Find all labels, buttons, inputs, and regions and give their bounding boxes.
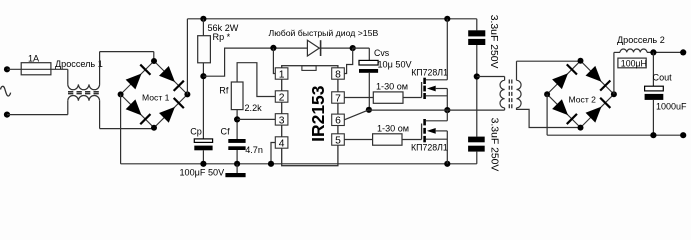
svg-text:Мост 1: Мост 1 bbox=[142, 92, 170, 102]
svg-text:Любой быстрый диод >15В: Любой быстрый диод >15В bbox=[269, 28, 379, 38]
svg-text:8: 8 bbox=[335, 69, 341, 80]
svg-text:100μH: 100μH bbox=[621, 58, 647, 68]
svg-text:1-30 ом: 1-30 ом bbox=[376, 82, 408, 92]
svg-text:КП728Л1: КП728Л1 bbox=[411, 68, 448, 78]
svg-text:КП728Л1: КП728Л1 bbox=[411, 142, 448, 152]
svg-text:Дроссель 2: Дроссель 2 bbox=[617, 35, 665, 45]
svg-text:Rp *: Rp * bbox=[213, 32, 231, 42]
svg-text:3: 3 bbox=[279, 115, 285, 126]
svg-text:7: 7 bbox=[335, 93, 341, 104]
svg-text:2: 2 bbox=[279, 92, 285, 103]
svg-text:6: 6 bbox=[335, 116, 341, 127]
svg-text:1000uF: 1000uF bbox=[656, 102, 687, 112]
svg-text:3.3uF 250V: 3.3uF 250V bbox=[488, 118, 499, 172]
svg-text:Cf: Cf bbox=[221, 127, 231, 137]
svg-text:1-30 ом: 1-30 ом bbox=[377, 123, 409, 133]
svg-text:5: 5 bbox=[335, 135, 341, 146]
svg-text:Cp: Cp bbox=[190, 127, 202, 137]
svg-text:100μF 50V: 100μF 50V bbox=[180, 168, 226, 178]
svg-text:Cout: Cout bbox=[653, 73, 673, 83]
svg-text:3.3uF 250V: 3.3uF 250V bbox=[488, 15, 499, 69]
svg-text:10μ 50V: 10μ 50V bbox=[378, 60, 413, 70]
svg-text:4: 4 bbox=[279, 138, 285, 149]
svg-text:Дроссель 1: Дроссель 1 bbox=[55, 59, 103, 69]
svg-text:Rf: Rf bbox=[219, 86, 229, 96]
svg-text:Мост 2: Мост 2 bbox=[569, 95, 597, 105]
svg-text:Cvs: Cvs bbox=[374, 48, 390, 58]
svg-text:1A: 1A bbox=[28, 54, 40, 64]
svg-text:IR2153: IR2153 bbox=[308, 85, 328, 142]
svg-text:2.2k: 2.2k bbox=[245, 103, 263, 113]
svg-text:4.7n: 4.7n bbox=[245, 145, 263, 155]
svg-text:1: 1 bbox=[279, 69, 285, 80]
